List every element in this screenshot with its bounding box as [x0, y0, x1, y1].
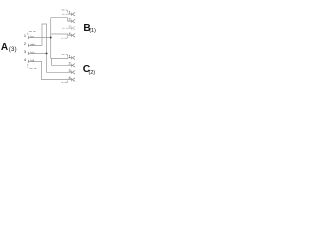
connector A label [1, 42, 17, 53]
connector B dashed body top [62, 10, 68, 12]
wire: main vertical bus x50.7 [50, 18, 52, 59]
svg-text:blu: blu [30, 51, 34, 55]
connector A pin 4 [24, 57, 35, 63]
connector C pin 2 [69, 61, 76, 67]
connector B dashed body bottom [62, 36, 68, 38]
svg-text:3: 3 [69, 24, 71, 29]
connector A pin 1 [24, 33, 34, 39]
svg-text:1: 1 [24, 33, 26, 38]
svg-text:4: 4 [24, 57, 27, 62]
svg-text:2: 2 [69, 17, 71, 22]
wire net A1-B2-B4-C1-C2 : A1 wire into junction [28, 37, 50, 39]
connector B pin 2 [69, 17, 76, 23]
svg-text:(2): (2) [89, 70, 96, 76]
svg-text:3: 3 [69, 68, 71, 73]
connector C pin 1 [69, 53, 76, 59]
svg-text:bn: bn [30, 35, 34, 39]
connector B label [83, 23, 96, 34]
connector B pin 4 [69, 31, 76, 37]
connector C dashed body bottom [62, 81, 68, 83]
svg-text:1: 1 [69, 10, 71, 15]
connector A dashed body bottom [28, 64, 37, 69]
svg-text:2: 2 [69, 61, 71, 66]
svg-text:A: A [1, 42, 8, 53]
connector A pin 2 [24, 41, 35, 47]
connector C dashed body top [62, 54, 68, 56]
connector B pin 3 [69, 24, 76, 30]
connector B pin3 dashed stub (n.c.) [62, 27, 72, 29]
connector A dashed body top [28, 31, 36, 34]
connector C label [83, 64, 95, 76]
svg-text:2: 2 [24, 41, 26, 46]
connector C pin 3 [69, 68, 76, 74]
svg-text:(3): (3) [9, 46, 17, 53]
svg-text:3: 3 [24, 49, 26, 54]
connector A pin 3 [24, 49, 35, 55]
wire: jog to B2 [51, 18, 72, 22]
wire: branch to B4 [51, 34, 72, 35]
svg-text:wht: wht [30, 43, 35, 47]
wire: A3 into junction [28, 52, 46, 54]
connector B pin 1 [69, 10, 76, 16]
connector B pin1 dashed stub (n.c.) [62, 13, 72, 15]
svg-text:blk: blk [30, 59, 34, 63]
junction dot on A1 [50, 37, 52, 39]
svg-text:(1): (1) [89, 28, 96, 34]
wire net A4-C4 [28, 61, 71, 79]
junction dot on A3 [46, 52, 48, 54]
wire: branch to C1 [51, 57, 72, 60]
connector C pin 4 [69, 75, 76, 81]
wire: drop to C2 [52, 59, 72, 66]
svg-text:1: 1 [69, 53, 71, 58]
wire net A2-A3-C3 : A2 staircase [28, 24, 71, 72]
